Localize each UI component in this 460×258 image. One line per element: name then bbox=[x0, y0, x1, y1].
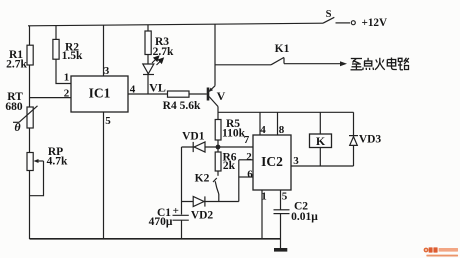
svg-text:IC2: IC2 bbox=[261, 154, 283, 169]
svg-text:6: 6 bbox=[247, 169, 253, 181]
svg-text:7: 7 bbox=[244, 134, 250, 146]
svg-text:110k: 110k bbox=[222, 128, 246, 140]
svg-text:1: 1 bbox=[261, 191, 267, 203]
svg-text:1.5k: 1.5k bbox=[62, 50, 83, 62]
svg-text:3: 3 bbox=[104, 65, 110, 77]
svg-text:θ: θ bbox=[14, 120, 21, 134]
svg-text:2k: 2k bbox=[223, 160, 236, 172]
svg-text:R4 5.6k: R4 5.6k bbox=[163, 100, 201, 112]
svg-text:+: + bbox=[173, 205, 179, 217]
svg-text:680: 680 bbox=[5, 101, 23, 113]
svg-text:2: 2 bbox=[64, 88, 70, 100]
svg-text:VD1: VD1 bbox=[182, 131, 205, 143]
svg-text:1: 1 bbox=[64, 72, 70, 84]
svg-text:4: 4 bbox=[260, 124, 266, 136]
svg-text:K: K bbox=[316, 134, 326, 148]
svg-text:V: V bbox=[217, 89, 226, 103]
svg-text:4: 4 bbox=[130, 84, 136, 96]
svg-text:3: 3 bbox=[293, 155, 299, 167]
svg-text:K2: K2 bbox=[195, 173, 210, 185]
svg-text:IC1: IC1 bbox=[89, 86, 111, 101]
svg-text:4.7k: 4.7k bbox=[47, 156, 68, 168]
svg-text:2.7k: 2.7k bbox=[153, 46, 174, 58]
svg-text:VD3: VD3 bbox=[359, 134, 382, 146]
svg-text:2.7k: 2.7k bbox=[6, 59, 27, 71]
svg-text:VL: VL bbox=[149, 81, 166, 95]
svg-text:5: 5 bbox=[105, 115, 111, 127]
svg-text:0.01μ: 0.01μ bbox=[291, 211, 318, 223]
svg-text:K1: K1 bbox=[275, 43, 290, 55]
svg-text:8: 8 bbox=[279, 124, 285, 136]
svg-text:+12V: +12V bbox=[361, 17, 387, 29]
svg-text:VD2: VD2 bbox=[191, 210, 214, 222]
svg-text:S: S bbox=[326, 9, 332, 20]
svg-text:2: 2 bbox=[246, 151, 252, 163]
svg-text:470μ: 470μ bbox=[149, 216, 173, 228]
svg-text:5: 5 bbox=[282, 191, 288, 203]
